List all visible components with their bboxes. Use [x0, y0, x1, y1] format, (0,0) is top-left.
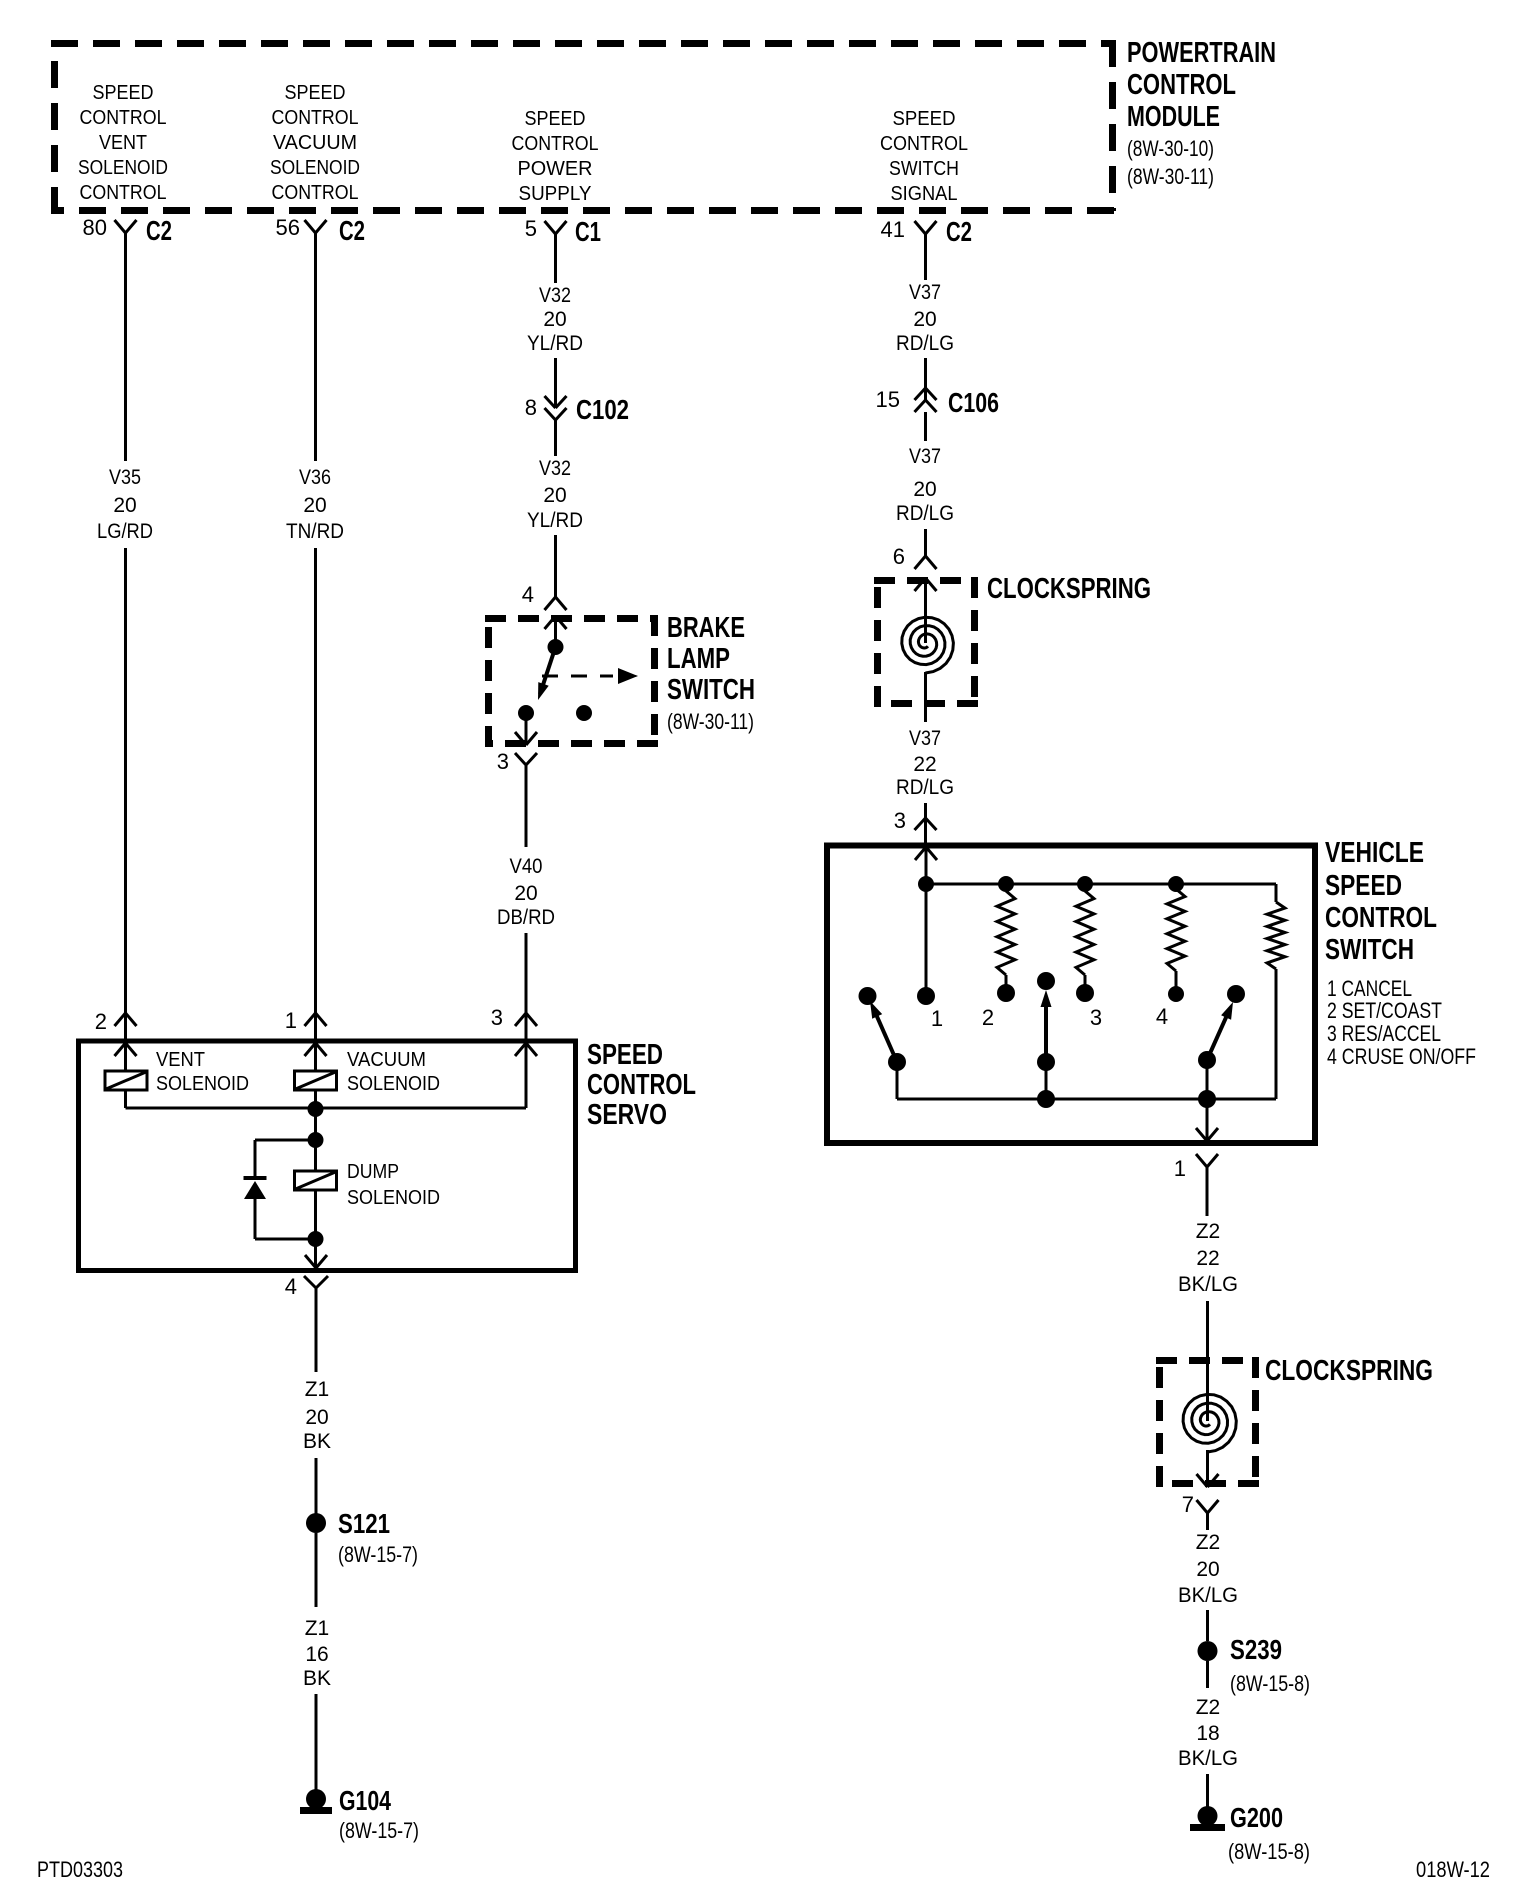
- svg-text:SPEED: SPEED: [587, 1039, 663, 1071]
- switch middle blade top contact node: [1037, 972, 1055, 990]
- svg-text:VENT: VENT: [99, 132, 147, 154]
- wire Z2 below splice: [1206, 1661, 1209, 1688]
- switch middle blade to bottom bus: [1045, 1062, 1048, 1099]
- svg-text:V32: V32: [539, 457, 571, 480]
- svg-text:CONTROL: CONTROL: [272, 107, 359, 129]
- wire V37 to C106: [924, 358, 927, 400]
- svg-text:(8W-15-8): (8W-15-8): [1230, 1671, 1310, 1696]
- svg-text:BK: BK: [303, 1430, 331, 1453]
- svg-text:41: 41: [881, 217, 905, 242]
- svg-text:16: 16: [305, 1643, 328, 1666]
- svg-text:V32: V32: [539, 284, 571, 307]
- wire V35 lower segment: [124, 548, 127, 1013]
- wire V40 lower segment: [525, 933, 528, 1013]
- servo wire dump to exit: [314, 1190, 317, 1266]
- servo vacuum wire to common: [314, 1090, 317, 1108]
- svg-text:TN/RD: TN/RD: [286, 520, 344, 543]
- resistor R2 set/coast: [997, 891, 1015, 975]
- servo entry arrow pin 3: [515, 1043, 526, 1056]
- switch entry arrow pin 3: [915, 847, 926, 860]
- switch left blade arrow: [875, 1012, 897, 1062]
- svg-text:RD/LG: RD/LG: [896, 502, 954, 525]
- switch bus junction node 4: [1168, 876, 1184, 892]
- svg-text:CONTROL: CONTROL: [272, 182, 359, 204]
- svg-text:(8W-15-8): (8W-15-8): [1228, 1839, 1310, 1864]
- brake lamp switch dashed box: [485, 615, 658, 622]
- svg-text:CONTROL: CONTROL: [512, 133, 599, 155]
- svg-text:20: 20: [913, 308, 936, 331]
- wire V37 to vehicle speed control switch: [924, 803, 927, 818]
- svg-text:V36: V36: [299, 466, 331, 489]
- resistor R5 lead to bottom bus: [1275, 969, 1278, 1099]
- svg-text:YL/RD: YL/RD: [527, 332, 583, 355]
- svg-text:LAMP: LAMP: [667, 643, 730, 675]
- servo common horizontal wire: [126, 1107, 527, 1110]
- svg-text:20: 20: [113, 494, 136, 517]
- speed control servo box: [79, 1041, 576, 1271]
- switch right blade pivot node: [1198, 1051, 1216, 1069]
- svg-text:5: 5: [525, 216, 537, 241]
- svg-text:BK/LG: BK/LG: [1178, 1747, 1238, 1770]
- svg-text:DB/RD: DB/RD: [497, 906, 555, 929]
- diode CR1: [244, 1176, 267, 1180]
- powertrain control module PCM dashed box: [51, 40, 1114, 47]
- svg-text:VACUUM: VACUUM: [347, 1049, 426, 1071]
- svg-text:20: 20: [913, 478, 936, 501]
- svg-text:CONTROL: CONTROL: [880, 133, 968, 155]
- clockspring upper entry arrow: [915, 578, 926, 591]
- wire V32 to C102: [554, 358, 557, 407]
- svg-text:VEHICLE: VEHICLE: [1325, 837, 1424, 869]
- wire V37 below C106: [924, 412, 927, 441]
- servo diode branch upper wire: [255, 1139, 316, 1142]
- svg-text:Z2: Z2: [1196, 1696, 1221, 1719]
- switch bottom bus wire: [897, 1098, 1276, 1101]
- servo wire common to dump: [314, 1109, 317, 1171]
- svg-text:SWITCH: SWITCH: [889, 158, 959, 180]
- svg-text:7: 7: [1182, 1492, 1194, 1517]
- resistor R2 terminal node: [997, 984, 1015, 1002]
- switch left blade pivot node: [888, 1053, 906, 1071]
- svg-text:SOLENOID: SOLENOID: [78, 157, 168, 179]
- svg-text:Z2: Z2: [1196, 1220, 1221, 1243]
- svg-text:Z1: Z1: [305, 1617, 330, 1640]
- wire Z1 to splice S121: [315, 1458, 318, 1514]
- svg-text:V37: V37: [909, 445, 941, 468]
- resistor R3 lead: [1084, 975, 1087, 993]
- svg-text:C102: C102: [576, 394, 629, 425]
- vehicle speed control switch box: [827, 846, 1315, 1144]
- svg-text:PTD03303: PTD03303: [37, 1857, 123, 1882]
- svg-text:BK/LG: BK/LG: [1178, 1273, 1238, 1296]
- svg-text:POWER: POWER: [518, 158, 593, 180]
- svg-text:3: 3: [894, 808, 906, 833]
- resistor R4 cruise on/off: [1167, 889, 1185, 971]
- svg-text:20: 20: [1196, 1558, 1219, 1581]
- resistor R4 terminal node: [1168, 986, 1184, 1002]
- wire Z2 to ground G200: [1206, 1774, 1209, 1816]
- switch right blade fixed contact node: [1227, 985, 1245, 1003]
- wire V32 below C102: [554, 420, 557, 456]
- wire Z1 upper segment: [315, 1300, 318, 1372]
- switch exit arrow pin 1: [1196, 1128, 1207, 1141]
- svg-text:G200: G200: [1230, 1802, 1283, 1833]
- svg-text:SPEED: SPEED: [285, 82, 346, 104]
- brake lamp switch entry arrow pin 4: [545, 616, 556, 629]
- svg-text:VENT: VENT: [156, 1049, 205, 1071]
- svg-text:1: 1: [285, 1008, 297, 1033]
- svg-text:S239: S239: [1230, 1634, 1282, 1665]
- svg-text:CONTROL: CONTROL: [1127, 69, 1236, 101]
- brake lamp switch output contact node: [518, 705, 534, 721]
- svg-text:SPEED: SPEED: [1325, 870, 1402, 902]
- svg-text:SWITCH: SWITCH: [1325, 934, 1414, 966]
- switch output wire: [1206, 1099, 1209, 1140]
- servo exit arrow pin 4: [305, 1255, 316, 1268]
- svg-text:3: 3: [497, 749, 509, 774]
- svg-text:Z1: Z1: [305, 1378, 330, 1401]
- svg-text:POWERTRAIN: POWERTRAIN: [1127, 37, 1276, 69]
- svg-text:18: 18: [1196, 1722, 1219, 1745]
- servo diode junction node lower: [308, 1231, 324, 1247]
- switch contact 1 wire: [925, 884, 928, 996]
- switch bus junction node 3: [1077, 876, 1093, 892]
- svg-text:SIGNAL: SIGNAL: [891, 183, 958, 205]
- wire Z2 to clockspring lower: [1206, 1301, 1209, 1380]
- svg-text:15: 15: [876, 387, 900, 412]
- svg-text:SOLENOID: SOLENOID: [156, 1073, 249, 1095]
- svg-text:80: 80: [83, 215, 107, 240]
- svg-text:C106: C106: [948, 387, 999, 418]
- switch contact 1 terminal node: [917, 987, 935, 1005]
- vent solenoid coil: [105, 1071, 147, 1090]
- svg-text:CONTROL: CONTROL: [80, 182, 167, 204]
- svg-text:(8W-30-11): (8W-30-11): [1127, 164, 1214, 189]
- clockspring upper dashed box: [874, 577, 978, 584]
- clockspring lower coil spiral: [1183, 1394, 1236, 1452]
- svg-text:CLOCKSPRING: CLOCKSPRING: [1265, 1355, 1433, 1387]
- svg-text:SOLENOID: SOLENOID: [347, 1073, 440, 1095]
- svg-text:LG/RD: LG/RD: [97, 520, 153, 543]
- servo vent wire to common: [124, 1090, 127, 1108]
- wire V37 segment from C2: [924, 234, 927, 280]
- svg-text:BRAKE: BRAKE: [667, 612, 745, 644]
- switch right blade to bottom bus: [1206, 1060, 1209, 1099]
- svg-text:4: 4: [522, 582, 534, 607]
- servo common junction node: [308, 1101, 324, 1117]
- splice S121: [306, 1513, 326, 1533]
- svg-text:2: 2: [95, 1009, 107, 1034]
- switch middle blade pivot node: [1037, 1053, 1055, 1071]
- resistor R4 lead: [1175, 971, 1178, 994]
- switch bottom bus junction node middle: [1037, 1090, 1055, 1108]
- svg-text:SERVO: SERVO: [587, 1099, 667, 1131]
- svg-text:6: 6: [893, 544, 905, 569]
- svg-text:4: 4: [1156, 1004, 1168, 1029]
- svg-text:V37: V37: [909, 727, 941, 750]
- clockspring lower dashed box: [1156, 1357, 1259, 1364]
- svg-text:C1: C1: [575, 216, 601, 247]
- svg-text:SOLENOID: SOLENOID: [347, 1187, 440, 1209]
- svg-text:CONTROL: CONTROL: [587, 1069, 696, 1101]
- clockspring upper exit wire: [924, 672, 927, 722]
- clockspring lower exit arrow: [1206, 1450, 1209, 1486]
- svg-text:CONTROL: CONTROL: [1325, 902, 1437, 934]
- svg-text:V37: V37: [909, 281, 941, 304]
- wire Z1 to ground G104: [315, 1694, 318, 1799]
- svg-text:BK: BK: [303, 1667, 331, 1690]
- ground G104: [306, 1789, 326, 1809]
- wire V32 to brake lamp switch: [554, 535, 557, 597]
- resistor R5 rightmost: [1267, 902, 1285, 969]
- brake lamp switch second contact node: [576, 705, 592, 721]
- svg-text:C2: C2: [339, 215, 365, 246]
- wire V35 upper segment: [124, 233, 127, 461]
- svg-text:1: 1: [931, 1006, 943, 1031]
- svg-text:VACUUM: VACUUM: [273, 132, 357, 154]
- svg-text:SWITCH: SWITCH: [667, 674, 755, 706]
- wire Z2 to splice S239: [1206, 1610, 1209, 1641]
- svg-text:MODULE: MODULE: [1127, 101, 1220, 133]
- svg-text:3 RES/ACCEL: 3 RES/ACCEL: [1327, 1021, 1441, 1046]
- svg-text:22: 22: [1196, 1247, 1219, 1270]
- svg-text:3: 3: [1090, 1005, 1102, 1030]
- svg-text:Z2: Z2: [1196, 1531, 1221, 1554]
- svg-text:(8W-30-11): (8W-30-11): [667, 709, 754, 734]
- svg-text:C2: C2: [146, 215, 172, 246]
- svg-text:(8W-15-7): (8W-15-7): [338, 1542, 418, 1567]
- svg-text:3: 3: [491, 1005, 503, 1030]
- servo diode junction node upper: [308, 1132, 324, 1148]
- switch left blade fixed contact node: [859, 987, 877, 1005]
- wire V36 lower segment: [314, 548, 317, 1013]
- svg-text:SPEED: SPEED: [93, 82, 154, 104]
- wire V37 to clockspring: [924, 529, 927, 556]
- brake lamp switch actuator dashed arrow: [542, 675, 613, 678]
- dump solenoid coil: [295, 1171, 337, 1190]
- svg-text:CLOCKSPRING: CLOCKSPRING: [987, 573, 1151, 605]
- resistor R3 terminal node: [1076, 984, 1094, 1002]
- svg-text:20: 20: [305, 1406, 328, 1429]
- wire V32 segment from C1: [554, 234, 557, 283]
- svg-text:(8W-15-7): (8W-15-7): [339, 1818, 419, 1843]
- svg-text:V35: V35: [109, 466, 141, 489]
- switch middle blade arrow: [1044, 1002, 1048, 1062]
- wire Z2 from switch pin 1: [1206, 1167, 1209, 1216]
- brake lamp switch blade: [540, 647, 556, 694]
- servo entry arrow pin 1: [305, 1043, 316, 1056]
- svg-text:2 SET/COAST: 2 SET/COAST: [1327, 998, 1442, 1023]
- svg-text:BK/LG: BK/LG: [1178, 1584, 1238, 1607]
- svg-text:YL/RD: YL/RD: [527, 509, 583, 532]
- switch bus junction node 1: [918, 876, 934, 892]
- svg-text:20: 20: [514, 882, 537, 905]
- svg-text:20: 20: [303, 494, 326, 517]
- in-line connector C106 pin 15: [915, 388, 926, 400]
- switch left blade to bottom bus: [896, 1062, 899, 1099]
- svg-text:56: 56: [276, 215, 300, 240]
- switch top bus wire: [926, 883, 1276, 886]
- resistor R3 res/accel: [1076, 891, 1094, 975]
- svg-text:C2: C2: [946, 216, 972, 247]
- clockspring upper coil spiral: [902, 617, 954, 673]
- ground G200: [1198, 1806, 1218, 1826]
- svg-text:SPEED: SPEED: [525, 108, 586, 130]
- svg-text:8: 8: [525, 395, 537, 420]
- svg-text:4: 4: [285, 1274, 297, 1299]
- svg-text:SUPPLY: SUPPLY: [519, 183, 592, 205]
- svg-text:4 CRUSE ON/OFF: 4 CRUSE ON/OFF: [1327, 1044, 1476, 1069]
- svg-text:(8W-30-10): (8W-30-10): [1127, 136, 1214, 161]
- svg-text:RD/LG: RD/LG: [896, 332, 954, 355]
- svg-text:SOLENOID: SOLENOID: [270, 157, 360, 179]
- svg-text:DUMP: DUMP: [347, 1161, 399, 1183]
- svg-text:018W-12: 018W-12: [1416, 1857, 1490, 1882]
- brake lamp switch exit arrow pin 3: [525, 713, 528, 744]
- svg-text:V40: V40: [510, 855, 543, 878]
- switch bus junction node 2: [998, 876, 1014, 892]
- servo entry arrow pin 2: [115, 1043, 126, 1056]
- splice S239: [1198, 1641, 1218, 1661]
- svg-text:CONTROL: CONTROL: [80, 107, 167, 129]
- svg-text:2: 2: [982, 1005, 994, 1030]
- resistor R2 lead: [1005, 975, 1008, 993]
- svg-text:20: 20: [543, 484, 566, 507]
- wire Z1 below splice: [315, 1533, 318, 1607]
- in-line connector C102 pin 8: [545, 396, 556, 408]
- brake lamp switch common contact node: [548, 639, 564, 655]
- svg-text:S121: S121: [338, 1508, 390, 1539]
- svg-text:G104: G104: [339, 1785, 391, 1816]
- clockspring lower entry wire: [1206, 1380, 1209, 1421]
- svg-text:1: 1: [1174, 1156, 1186, 1181]
- vacuum solenoid coil: [295, 1071, 337, 1090]
- switch right blade arrow: [1207, 1013, 1228, 1060]
- svg-text:20: 20: [543, 308, 566, 331]
- servo diode branch lower wire: [254, 1199, 257, 1239]
- wire V40 upper segment: [525, 789, 528, 847]
- svg-text:RD/LG: RD/LG: [896, 776, 954, 799]
- switch bottom bus junction node right: [1198, 1090, 1216, 1108]
- svg-text:SPEED: SPEED: [893, 108, 956, 130]
- svg-text:22: 22: [913, 753, 936, 776]
- wire V36 upper segment: [314, 233, 317, 461]
